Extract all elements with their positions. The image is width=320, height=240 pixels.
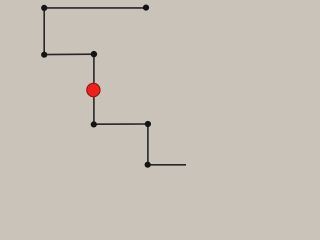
wire mid horizontal upper bbox=[44, 53, 94, 55]
wire right vertical bbox=[147, 124, 149, 165]
node dot left mid bbox=[41, 52, 47, 58]
node dot top-right bbox=[143, 5, 149, 11]
node dot center lower bbox=[91, 121, 97, 127]
node dot top-left bbox=[41, 5, 47, 11]
wire left vertical bbox=[43, 8, 45, 55]
wire top horizontal bbox=[44, 7, 146, 9]
red marker circle bbox=[87, 83, 100, 96]
wire mid vertical through node bbox=[93, 54, 95, 124]
node dot right mid bbox=[145, 121, 151, 127]
node dot bottom bbox=[145, 162, 151, 168]
wire bottom horizontal to edge bbox=[148, 164, 186, 166]
wire mid horizontal lower bbox=[94, 123, 148, 125]
node dot center upper bbox=[91, 51, 97, 57]
